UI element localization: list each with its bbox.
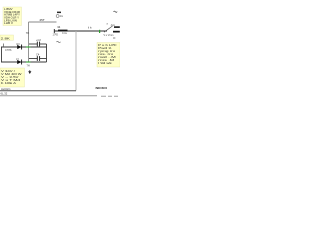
indicator lamp top (56, 12, 63, 19)
svg-text:7K: 7K (26, 31, 30, 35)
svg-text:V u Vmm: V u Vmm (104, 34, 114, 37)
capacitor C2 branch (29, 38, 47, 47)
green mark rail1 (26, 46, 31, 48)
svg-text:7H: 7H (27, 65, 30, 68)
svg-text:NICKO: NICKO (96, 86, 108, 90)
svg-text:2m: 2m (60, 15, 63, 18)
main wire horizontal (54, 30, 107, 32)
svg-text:34: 34 (57, 25, 60, 29)
ground arrow symbol (28, 70, 31, 74)
switch diagonal (104, 26, 113, 32)
capacitor C4 branch (29, 53, 47, 61)
terminal bar lower (113, 31, 120, 33)
svg-text:b 10E A: b 10E A (1, 81, 16, 85)
note sticky yellow bottom-left (0, 68, 25, 87)
svg-text:AuCHIn: AuCHIn (1, 87, 11, 91)
svg-text:25T: 25T (40, 18, 45, 22)
svg-text:LHB V: LHB V (4, 21, 13, 25)
svg-text:1N: 1N (16, 43, 19, 46)
svg-text:1.PD: 1.PD (53, 33, 59, 36)
stub above rail1 (3, 44, 5, 48)
vertical drop wire (75, 31, 77, 91)
terminal tick (53, 29, 55, 33)
note sticky yellow right (97, 43, 120, 68)
svg-text:6L.32: 6L.32 (1, 91, 8, 95)
svg-text:+C2: +C2 (36, 38, 41, 42)
svg-text:LY: LY (16, 58, 19, 61)
diode D1 (16, 43, 21, 50)
wire vertical mid-left (28, 22, 30, 62)
small dash right (113, 37, 115, 39)
svg-text:C.lw: C.lw (62, 32, 67, 35)
tilde mark (57, 41, 61, 42)
svg-text:C4: C4 (36, 53, 40, 57)
wire top horizontal (29, 21, 57, 23)
note label 2.8K left (0, 35, 14, 40)
terminal bar upper (114, 26, 120, 28)
green mark rail2 (26, 61, 31, 63)
rail 2 horizontal (1, 61, 47, 63)
rail 1 horizontal (1, 46, 47, 48)
ground rail bottom (0, 90, 76, 92)
svg-text:C7H6: C7H6 (5, 49, 12, 52)
right vertical of cap column (46, 44, 48, 62)
svg-text:2.8K: 2.8K (1, 36, 10, 40)
border line bottom (0, 95, 97, 97)
left vertical (1, 47, 3, 62)
svg-text:l 9d wk: l 9d wk (98, 61, 113, 65)
note sticky yellow top-left (3, 7, 22, 26)
inductor bar (58, 30, 68, 32)
svg-text:JLm: JLm (111, 24, 116, 27)
squiggle top-right (114, 11, 118, 12)
diode D2 (16, 58, 21, 65)
green mark main wire (99, 30, 101, 33)
dashes bottom right (101, 95, 106, 97)
